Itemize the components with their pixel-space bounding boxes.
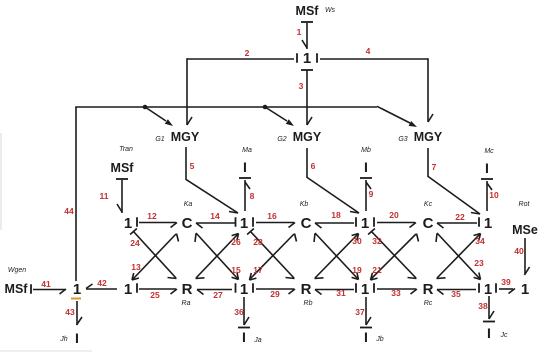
bond 21 bbox=[371, 234, 419, 281]
junction 1a bbox=[124, 215, 137, 232]
bond 29 bbox=[256, 289, 295, 299]
svg-text:41: 41 bbox=[41, 279, 51, 289]
svg-text:1: 1 bbox=[297, 27, 302, 37]
modulation junction dot A bbox=[143, 105, 148, 110]
bond 36 causal stroke bbox=[238, 327, 250, 329]
bond 41 bbox=[33, 279, 66, 294]
source MSf (Ws) top bbox=[296, 4, 336, 18]
bond 28 bbox=[247, 229, 294, 279]
inertia I (Jh) bbox=[59, 330, 79, 346]
bond 26 bbox=[196, 234, 241, 279]
svg-text:1: 1 bbox=[73, 281, 81, 298]
svg-text:Mb: Mb bbox=[361, 147, 371, 154]
svg-text:1: 1 bbox=[124, 281, 132, 298]
resistor R (Ra) bbox=[182, 281, 193, 307]
bond 11 causal stroke bbox=[116, 178, 128, 180]
svg-text:C: C bbox=[182, 215, 193, 232]
svg-text:27: 27 bbox=[213, 290, 223, 300]
svg-text:MGY: MGY bbox=[171, 130, 200, 144]
junction 1c bbox=[356, 215, 374, 232]
bond 35 bbox=[437, 289, 476, 299]
svg-text:4: 4 bbox=[366, 46, 371, 56]
bond 3 causal stroke bbox=[301, 69, 313, 71]
svg-text:22: 22 bbox=[455, 212, 465, 222]
svg-text:I: I bbox=[485, 160, 489, 176]
capacitor C (Kb) bbox=[300, 201, 312, 232]
svg-text:2: 2 bbox=[245, 48, 250, 58]
bond 40 bbox=[514, 238, 529, 275]
inertia I (Jb) bbox=[364, 329, 384, 345]
svg-text:Ma: Ma bbox=[242, 147, 252, 154]
svg-text:I: I bbox=[243, 159, 247, 175]
svg-text:30: 30 bbox=[352, 236, 362, 246]
bond 38 causal stroke bbox=[483, 321, 495, 323]
bond 41 causal stroke bbox=[30, 284, 32, 294]
svg-text:12: 12 bbox=[147, 211, 157, 221]
bond 9 bbox=[366, 180, 374, 211]
resistor R (Rc) bbox=[423, 281, 434, 307]
bond 16 bbox=[256, 211, 295, 228]
svg-text:6: 6 bbox=[311, 161, 316, 171]
modulation arrow to MGY G2 bbox=[265, 107, 294, 126]
svg-text:26: 26 bbox=[231, 237, 241, 247]
svg-text:1: 1 bbox=[361, 215, 369, 232]
svg-text:Ka: Ka bbox=[184, 201, 193, 208]
svg-text:I: I bbox=[242, 329, 246, 345]
svg-text:C: C bbox=[301, 215, 312, 232]
bond 43 bbox=[65, 301, 82, 325]
svg-text:I: I bbox=[364, 329, 368, 345]
svg-text:35: 35 bbox=[451, 289, 461, 299]
svg-text:I: I bbox=[75, 330, 79, 346]
svg-text:1: 1 bbox=[240, 281, 248, 298]
svg-text:34: 34 bbox=[475, 236, 485, 246]
bond 30 bbox=[315, 234, 362, 279]
svg-text:8: 8 bbox=[250, 191, 255, 201]
gyrator MGY G1 bbox=[155, 130, 200, 144]
source MSf (Wgen) bbox=[5, 267, 29, 296]
svg-text:13: 13 bbox=[131, 262, 141, 272]
svg-text:G2: G2 bbox=[277, 136, 286, 143]
svg-text:R: R bbox=[423, 281, 434, 298]
bond 31 bbox=[315, 288, 354, 298]
svg-text:31: 31 bbox=[336, 288, 346, 298]
modulation arrow to MGY G3 bbox=[377, 106, 417, 127]
bond 8 causal stroke bbox=[239, 177, 251, 179]
bond 2 bbox=[187, 48, 294, 125]
svg-text:Kb: Kb bbox=[300, 201, 309, 208]
junction 1d bbox=[479, 215, 492, 232]
svg-text:1: 1 bbox=[240, 215, 248, 232]
svg-text:9: 9 bbox=[369, 189, 374, 199]
svg-text:MSf: MSf bbox=[296, 4, 320, 18]
bond 1 causal stroke bbox=[301, 21, 313, 23]
svg-text:1: 1 bbox=[124, 215, 132, 232]
svg-text:11: 11 bbox=[100, 191, 109, 201]
svg-text:Rot: Rot bbox=[519, 201, 531, 208]
svg-text:I: I bbox=[487, 325, 491, 341]
svg-text:24: 24 bbox=[130, 238, 140, 248]
svg-text:43: 43 bbox=[65, 307, 75, 317]
svg-text:1: 1 bbox=[521, 281, 529, 298]
junction 1 (generator) bbox=[73, 281, 81, 298]
svg-text:15: 15 bbox=[231, 265, 241, 275]
bond 6 bbox=[307, 148, 359, 213]
svg-text:MSf: MSf bbox=[5, 282, 29, 296]
svg-text:38: 38 bbox=[478, 301, 488, 311]
svg-text:Mc: Mc bbox=[484, 148, 494, 155]
bond 43 causal stroke (orange) bbox=[71, 298, 81, 300]
junction 1e bbox=[124, 281, 137, 298]
inertia I (Ma) bbox=[242, 147, 252, 175]
svg-text:14: 14 bbox=[210, 211, 220, 221]
svg-text:I: I bbox=[364, 159, 368, 175]
bond 39 bbox=[499, 277, 515, 294]
svg-text:18: 18 bbox=[331, 210, 341, 220]
bond 24 bbox=[130, 229, 176, 279]
svg-text:MSe: MSe bbox=[512, 223, 538, 237]
svg-text:28: 28 bbox=[253, 237, 263, 247]
svg-text:33: 33 bbox=[391, 288, 401, 298]
bond 8 bbox=[245, 180, 255, 211]
junction 1g bbox=[356, 281, 374, 298]
svg-text:Jc: Jc bbox=[500, 332, 509, 339]
modulation arrow to MGY G1 bbox=[145, 107, 173, 126]
bond 18 bbox=[315, 210, 354, 228]
svg-text:25: 25 bbox=[150, 290, 160, 300]
svg-text:MGY: MGY bbox=[293, 130, 322, 144]
faint left window edge bbox=[0, 133, 2, 230]
modulation junction dot B bbox=[263, 105, 268, 110]
source MSe (Rot) bbox=[512, 201, 538, 237]
svg-text:1: 1 bbox=[361, 281, 369, 298]
svg-text:1: 1 bbox=[484, 215, 492, 232]
gyrator MGY G3 bbox=[398, 130, 443, 144]
bond 14 bbox=[196, 211, 235, 228]
svg-text:MSf: MSf bbox=[111, 161, 135, 175]
bond 5 bbox=[186, 147, 238, 213]
bond 20 bbox=[377, 210, 416, 228]
capacitor C (Kc) bbox=[423, 201, 434, 232]
bond 11 bbox=[100, 180, 123, 213]
svg-text:39: 39 bbox=[501, 277, 511, 287]
source MSf (Tran) bbox=[111, 146, 135, 175]
bond 42 bbox=[86, 278, 117, 289]
svg-text:44: 44 bbox=[64, 206, 74, 216]
inertia I (Jc) bbox=[487, 325, 508, 341]
svg-text:Rc: Rc bbox=[424, 300, 433, 307]
svg-text:23: 23 bbox=[474, 258, 484, 268]
bond 10 bbox=[487, 181, 499, 211]
bond 4 bbox=[320, 46, 433, 122]
bond 34 bbox=[437, 234, 485, 279]
svg-text:Ja: Ja bbox=[253, 337, 262, 344]
bond 32 bbox=[368, 229, 416, 279]
bond 15 bbox=[195, 233, 241, 280]
inertia I (Mc) bbox=[484, 148, 494, 176]
bond 1 bbox=[297, 23, 307, 49]
junction 1 (top) bbox=[297, 50, 317, 67]
svg-text:C: C bbox=[423, 215, 434, 232]
svg-text:3: 3 bbox=[299, 81, 304, 91]
bond 37 causal stroke bbox=[360, 327, 372, 329]
bond 27 bbox=[197, 290, 232, 301]
svg-text:7: 7 bbox=[432, 162, 437, 172]
svg-text:Jh: Jh bbox=[59, 336, 68, 343]
svg-text:G1: G1 bbox=[155, 136, 164, 143]
svg-text:Kc: Kc bbox=[424, 201, 433, 208]
svg-text:19: 19 bbox=[352, 265, 362, 275]
svg-text:5: 5 bbox=[190, 161, 195, 171]
bond 44 / modulation wire bbox=[64, 107, 377, 281]
svg-text:37: 37 bbox=[355, 307, 365, 317]
junction 1b bbox=[236, 215, 254, 232]
svg-text:G3: G3 bbox=[398, 136, 407, 143]
svg-text:10: 10 bbox=[489, 190, 499, 200]
svg-text:1: 1 bbox=[484, 281, 492, 298]
bond 9 causal stroke bbox=[360, 177, 372, 179]
svg-text:Ws: Ws bbox=[325, 7, 336, 14]
svg-text:Ra: Ra bbox=[182, 300, 191, 307]
svg-text:16: 16 bbox=[267, 211, 277, 221]
gyrator MGY G2 bbox=[277, 130, 322, 144]
bond 10 causal stroke bbox=[481, 178, 493, 180]
svg-text:29: 29 bbox=[270, 289, 280, 299]
bond 22 bbox=[437, 212, 477, 228]
inertia I (Ja) bbox=[242, 329, 262, 345]
svg-text:Rb: Rb bbox=[304, 300, 313, 307]
svg-text:MGY: MGY bbox=[414, 130, 443, 144]
capacitor C (Ka) bbox=[182, 201, 193, 232]
bond 19 bbox=[314, 233, 362, 280]
svg-text:17: 17 bbox=[253, 265, 263, 275]
svg-text:20: 20 bbox=[389, 210, 399, 220]
resistor R (Rb) bbox=[301, 281, 313, 307]
bond 17 bbox=[250, 234, 297, 281]
faint bottom line bbox=[0, 350, 92, 352]
junction 1h bbox=[479, 281, 496, 298]
bond 25 bbox=[139, 289, 177, 300]
svg-text:36: 36 bbox=[234, 307, 244, 317]
bond 38 bbox=[478, 296, 494, 319]
svg-text:R: R bbox=[182, 281, 193, 298]
bond 33 bbox=[377, 288, 417, 298]
bond 3 bbox=[299, 70, 312, 125]
svg-text:42: 42 bbox=[97, 278, 107, 288]
svg-text:R: R bbox=[301, 281, 312, 298]
junction 1 (rotor) bbox=[521, 281, 529, 298]
bond 23 bbox=[436, 233, 484, 280]
svg-text:Wgen: Wgen bbox=[8, 267, 26, 274]
svg-text:Jb: Jb bbox=[375, 336, 384, 343]
bond 37 bbox=[355, 297, 371, 325]
bond 7 bbox=[428, 148, 480, 214]
svg-text:32: 32 bbox=[372, 236, 382, 246]
junction 1f bbox=[236, 281, 254, 298]
svg-text:21: 21 bbox=[372, 265, 382, 275]
svg-text:40: 40 bbox=[514, 246, 524, 256]
bond 12 bbox=[139, 211, 177, 228]
svg-text:Tran: Tran bbox=[119, 146, 133, 153]
svg-text:1: 1 bbox=[303, 50, 311, 67]
inertia I (Mb) bbox=[361, 147, 371, 175]
bond 36 bbox=[234, 297, 249, 325]
bond 13 bbox=[131, 234, 178, 281]
